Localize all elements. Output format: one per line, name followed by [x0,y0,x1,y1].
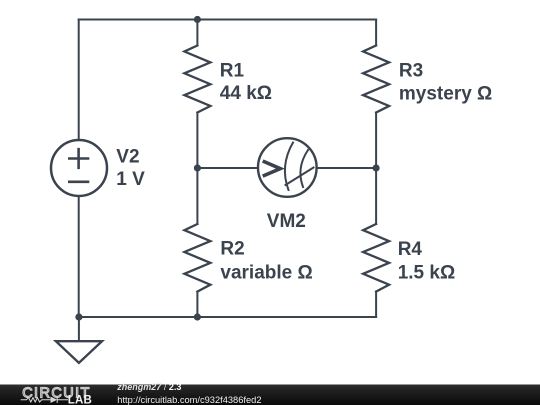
ground stub [78,317,80,341]
svg-text:R2: R2 [220,239,244,260]
svg-text:variable Ω: variable Ω [220,263,312,284]
VM2 needle [286,168,314,186]
V2 plus sign [69,149,88,168]
logo diode triangle [51,397,58,403]
V2 minus sign [69,181,88,184]
wire middle left (node to voltmeter) [197,167,257,169]
wire R3 top lead [375,20,377,46]
resistor R1 [184,46,210,113]
wire left rail lower [78,196,80,317]
VM2 arc outer [285,143,293,191]
svg-text:http://circuitlab.com/c932f438: http://circuitlab.com/c932f4386fed2 [117,395,261,405]
wire top rail [79,19,376,21]
svg-text:mystery Ω: mystery Ω [399,83,492,104]
resistor R4 [363,224,389,292]
wire R3 bottom lead [375,113,377,169]
node dot mid-left [194,164,201,171]
wire R4 bottom lead [375,292,377,317]
wire bottom rail [79,316,376,318]
svg-text:1 V: 1 V [116,169,145,190]
svg-text:V2: V2 [116,146,139,167]
wire R1 bottom lead [196,113,198,169]
svg-text:R1: R1 [220,60,245,81]
node dot bottom-mid [194,313,201,320]
svg-text:R4: R4 [398,239,423,260]
VM2 chevron [263,161,281,176]
svg-text:1.5 kΩ: 1.5 kΩ [398,262,456,283]
resistor R2 [184,224,210,292]
wire R2 top lead [196,168,198,224]
svg-text:44 kΩ: 44 kΩ [220,83,272,104]
logo resistor-diode wire [21,397,68,403]
svg-text:LAB: LAB [68,395,92,405]
node dot mid-right [373,164,380,171]
wire R2 bottom lead [196,292,198,317]
resistor R3 [363,46,389,113]
node dot top [194,16,201,23]
voltmeter VM2 body [258,138,317,197]
svg-text:VM2: VM2 [267,211,306,232]
VM2 arc inner [300,150,308,187]
footer bar [0,385,540,405]
wire left rail upper [78,20,80,141]
wire middle right (voltmeter to node) [317,167,376,169]
wire R1 top lead [196,20,198,46]
svg-text:zhengm27 / 2.3: zhengm27 / 2.3 [116,382,181,392]
ground symbol [56,341,102,363]
wire R4 top lead [375,168,377,224]
svg-text:R3: R3 [399,60,423,81]
node dot ground [75,313,82,320]
voltage source V2 body [51,140,107,196]
